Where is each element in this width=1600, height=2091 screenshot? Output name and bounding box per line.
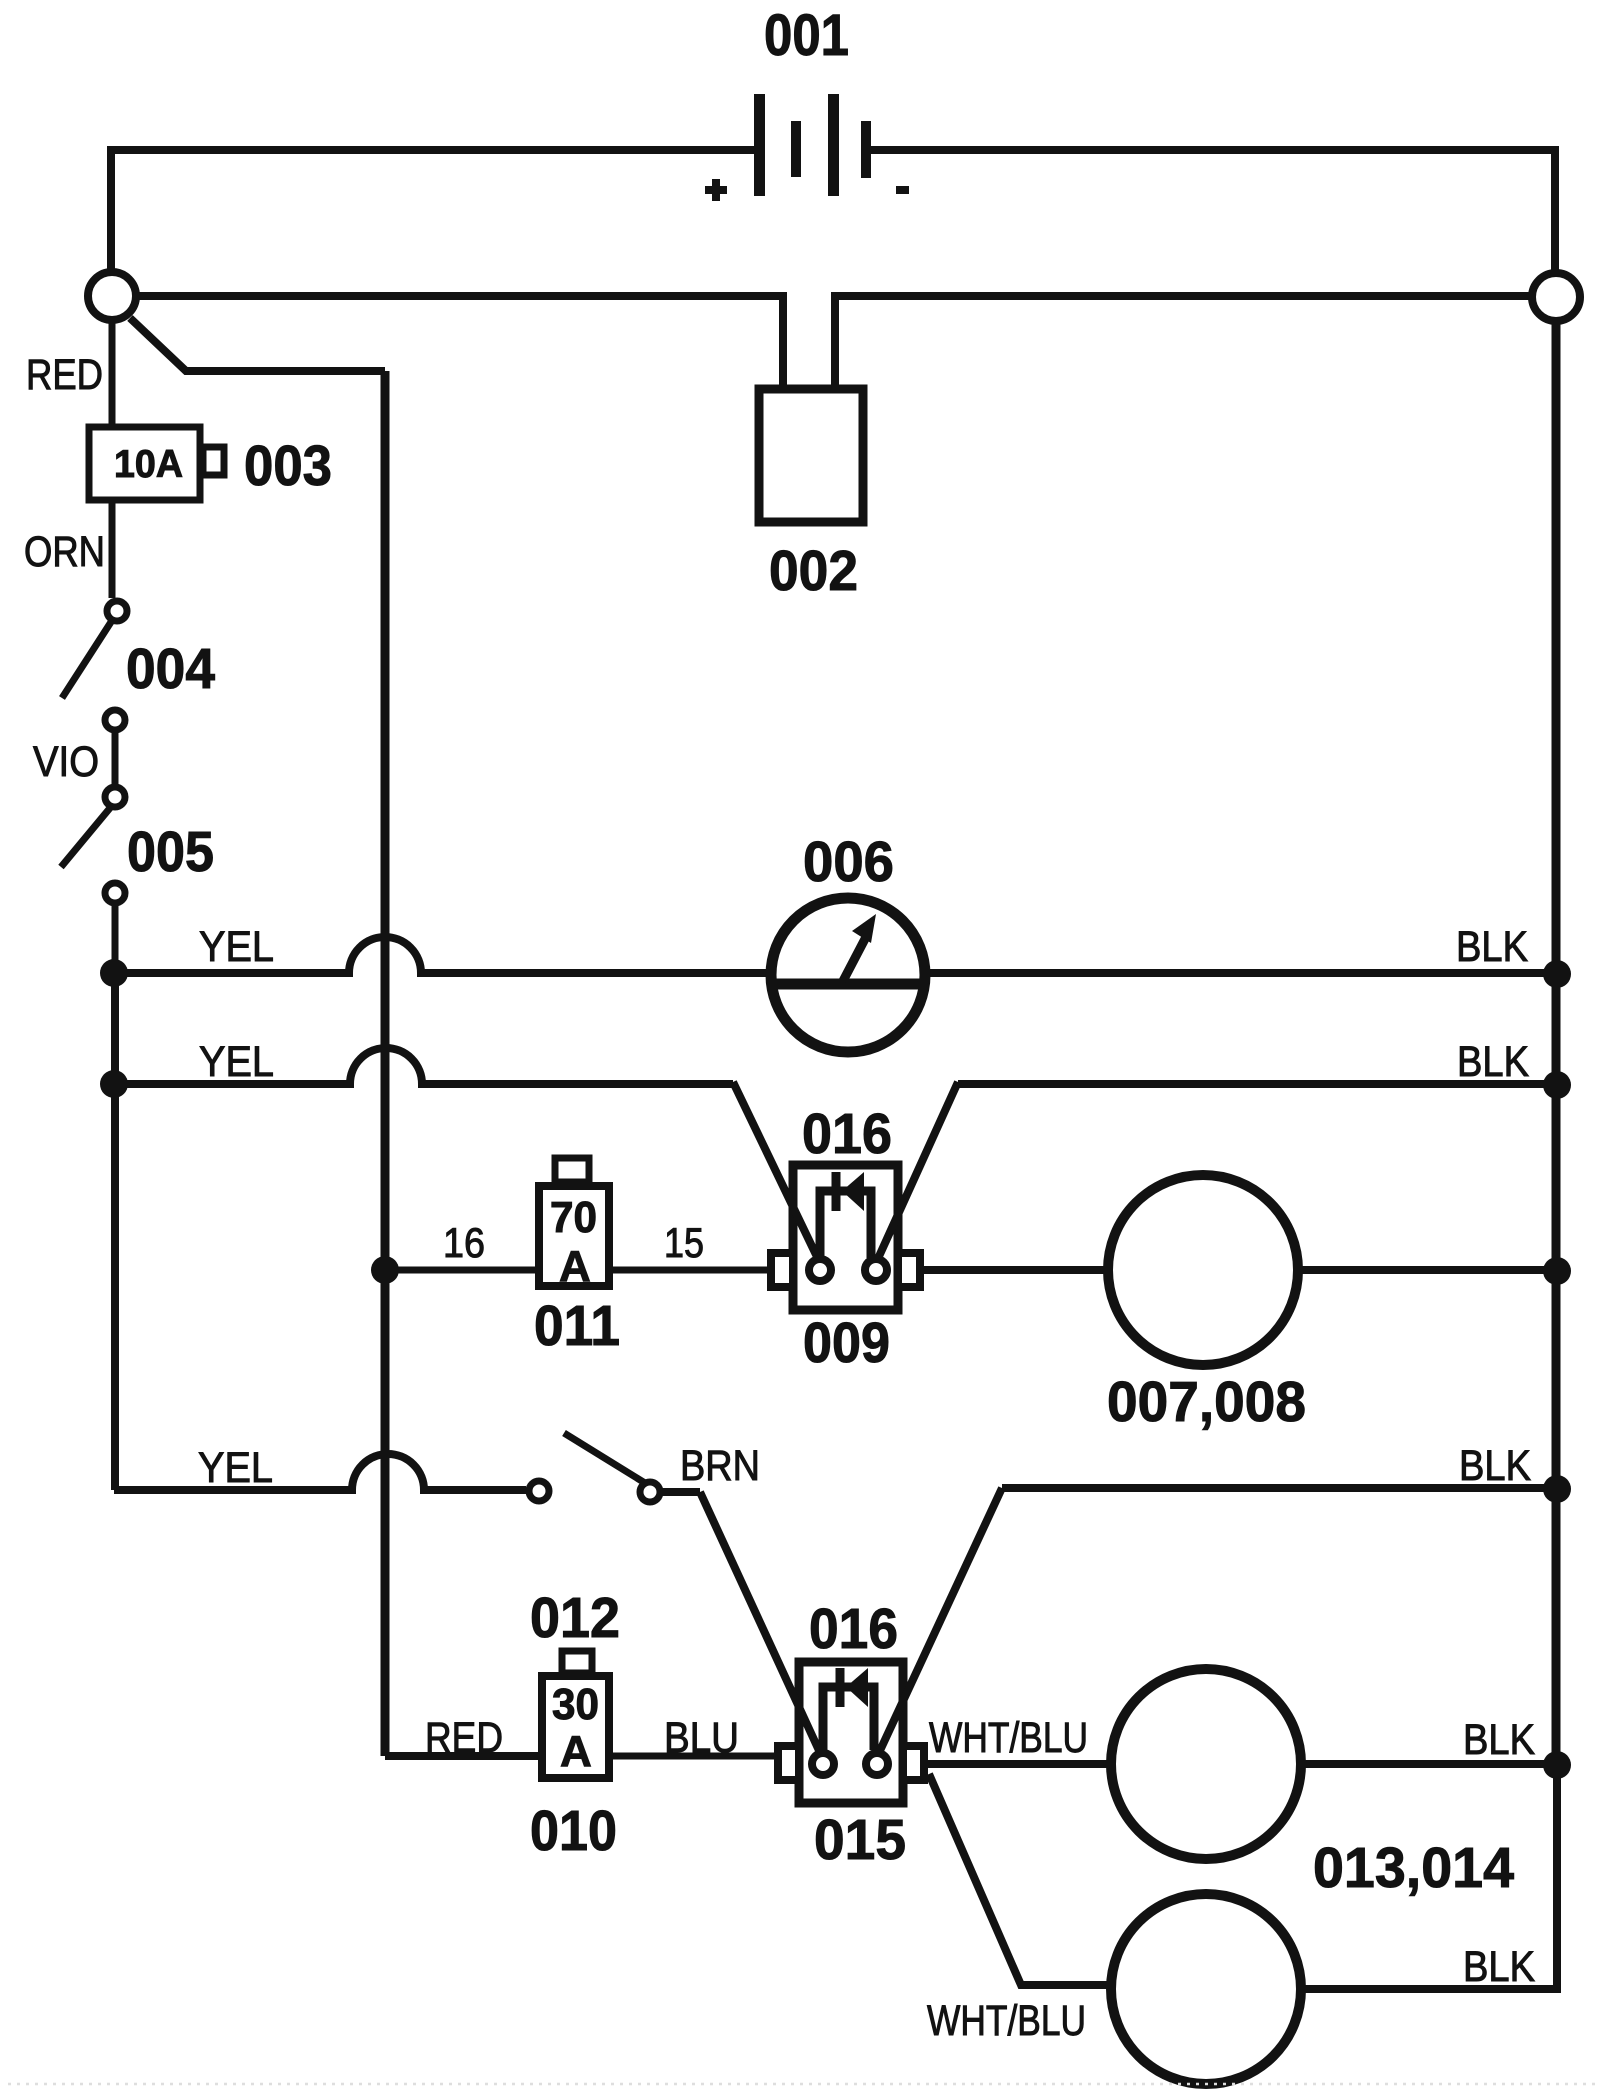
svg-text:RED: RED (26, 351, 103, 399)
wire inner vertical rail x=385 (381, 371, 390, 1756)
junction dot row 013 right (1543, 1751, 1571, 1779)
breaker 009 diode triangle (842, 1172, 864, 1211)
svg-text:ORN: ORN (24, 528, 105, 576)
wire bus1 BLK right (930, 969, 1557, 977)
svg-text:70: 70 (550, 1193, 597, 1242)
battery - sign (896, 186, 909, 194)
svg-text:015: 015 (814, 1808, 906, 1872)
wire motor 014 to right bus corner (1301, 1765, 1557, 1989)
svg-text:YEL: YEL (199, 923, 274, 971)
breaker 015 box (799, 1662, 903, 1803)
svg-text:WHT/BLU: WHT/BLU (929, 1714, 1088, 1762)
svg-text:012: 012 (530, 1586, 620, 1650)
svg-text:003: 003 (244, 434, 332, 498)
wire V right arm into 009 (876, 1082, 958, 1263)
wire right bus vertical (1552, 322, 1561, 1490)
breaker 015 diode triangle (846, 1668, 868, 1707)
svg-text:010: 010 (530, 1799, 617, 1863)
breaker 015 right pin (866, 1753, 888, 1775)
switch 004 blade (62, 622, 111, 698)
wire diagonal from left terminal to inner vertical (130, 318, 385, 371)
wire RED: terminal to fuse 003 (109, 320, 116, 425)
switch BRN blade (564, 1433, 645, 1483)
wire VIO link (112, 730, 119, 788)
fuse 011 top tab (555, 1158, 589, 1182)
switch 005 lower contact (105, 883, 125, 903)
svg-text:YEL: YEL (198, 1444, 273, 1492)
switch 004 contact (107, 601, 127, 621)
switch BRN right contact (640, 1482, 660, 1502)
wire 15 segment (609, 1267, 771, 1274)
svg-text:005: 005 (127, 820, 214, 884)
wire bus2 YEL left with hop (114, 1048, 733, 1084)
svg-text:WHT/BLU: WHT/BLU (927, 1997, 1086, 2045)
svg-text:007,008: 007,008 (1107, 1370, 1306, 1434)
wire V left arm into 009 (733, 1082, 820, 1263)
breaker 009 right pin (865, 1259, 887, 1281)
breaker 015 left tab (778, 1746, 799, 1780)
svg-text:A: A (559, 1242, 591, 1291)
motor 007,008 (1108, 1175, 1298, 1365)
fuse 003 box 10A (89, 427, 200, 500)
wire RED row 010 (385, 1752, 542, 1760)
junction dot row3 right (1543, 1475, 1571, 1503)
junction dot bus1 right (1543, 960, 1571, 988)
breaker 009 inner U (820, 1191, 871, 1258)
component 002 box (759, 389, 863, 522)
breaker 009 diode bar (832, 1172, 841, 1211)
breaker 009 left tab (771, 1253, 793, 1287)
gauge 006 body (771, 898, 925, 1052)
svg-text:BLK: BLK (1463, 1943, 1535, 1991)
wire motor to right bus (1298, 1266, 1557, 1274)
wire contact to bus1 (112, 903, 119, 973)
wire bus2 BLK right (958, 1080, 1557, 1088)
wire top-left vertical + top bus to battery + (111, 150, 754, 273)
fuse 010 box 30A (542, 1676, 609, 1778)
svg-text:15: 15 (664, 1219, 704, 1266)
switch 005 blade (61, 808, 110, 867)
motor 014 (1111, 1894, 1301, 2084)
breaker 009 box (793, 1165, 898, 1310)
wire drop right to 002 (831, 292, 839, 385)
breaker 015 right tab (903, 1746, 924, 1780)
svg-text:A: A (560, 1727, 592, 1776)
svg-text:VIO: VIO (33, 738, 99, 786)
breaker 009 right tab (898, 1253, 920, 1287)
breaker 015 inner U (823, 1687, 874, 1750)
svg-text:BLK: BLK (1457, 1038, 1529, 1086)
breaker 015 left pin (812, 1753, 834, 1775)
wire drop left to 002 (779, 292, 787, 385)
gauge 006 chord (768, 979, 928, 990)
battery + sign (705, 179, 727, 201)
svg-text:BLK: BLK (1456, 923, 1528, 971)
svg-text:BLU: BLU (664, 1714, 739, 1762)
motor 013 (1111, 1669, 1301, 1859)
wire 16 segment (385, 1267, 535, 1274)
svg-text:YEL: YEL (199, 1038, 274, 1086)
wire BLU segment (609, 1753, 778, 1760)
wire 009 to motor 007/008 (920, 1266, 1108, 1274)
switch BRN left contact (529, 1481, 549, 1501)
fuse 003 right tab (203, 447, 224, 475)
svg-text:016: 016 (802, 1102, 892, 1166)
gauge 006 needle (843, 937, 866, 981)
svg-text:16: 16 (443, 1219, 485, 1266)
wire row3 YEL with hop (114, 1454, 526, 1490)
wire bus1 YEL left with hop (114, 937, 766, 973)
svg-text:006: 006 (803, 830, 894, 894)
svg-text:BRN: BRN (680, 1442, 760, 1490)
wire left vertical bus1->bus2->row3 (111, 973, 119, 1490)
svg-text:004: 004 (126, 637, 215, 701)
wire battery - to top-right corner down to terminal (871, 150, 1555, 274)
svg-text:011: 011 (534, 1294, 620, 1358)
breaker 015 diode bar (836, 1668, 845, 1707)
svg-text:016: 016 (809, 1597, 898, 1661)
wire second bus right segment (835, 292, 1529, 300)
svg-text:BLK: BLK (1459, 1442, 1531, 1490)
fuse 011 box 70A (539, 1186, 609, 1286)
svg-text:30: 30 (552, 1680, 599, 1729)
fuse 010 top tab (562, 1651, 592, 1673)
wire ORN: fuse to switch 004 (109, 500, 116, 598)
breaker 009 left pin (809, 1259, 831, 1281)
wire WHT/BLU diagonal to motor 014 (929, 1774, 1111, 1985)
wire diagonal BLK3 to 015 right pin (877, 1488, 1002, 1757)
junction dot row009 right (1543, 1257, 1571, 1285)
wire second bus left segment (136, 292, 783, 300)
svg-text:001: 001 (764, 3, 849, 68)
svg-text:BLK: BLK (1463, 1716, 1535, 1764)
svg-text:10A: 10A (114, 443, 183, 486)
junction dot bus2 left (100, 1070, 128, 1098)
junction dot bus2 right (1543, 1071, 1571, 1099)
node terminal right (circle) (1532, 273, 1580, 321)
node terminal left (circle) (88, 272, 136, 320)
svg-text:002: 002 (769, 539, 858, 603)
svg-text:RED: RED (425, 1714, 503, 1762)
junction dot row009 on rail (371, 1256, 399, 1284)
switch 005 middle contact (105, 787, 125, 807)
svg-text:013,014: 013,014 (1313, 1836, 1514, 1900)
battery 001 (754, 94, 871, 196)
switch 005 upper contact (105, 710, 125, 730)
wire BRN stub (661, 1488, 700, 1496)
wire row BLK3 from right bus (1002, 1484, 1557, 1492)
wire BRN diagonal to 015 (700, 1492, 822, 1757)
scan artifact dotted line bottom (8, 2083, 1598, 2086)
wire WHT/BLU to motor 013 (924, 1760, 1111, 1768)
junction dot bus1 left (100, 959, 128, 987)
wire motor 013 to right bus (1301, 1760, 1557, 1768)
svg-text:009: 009 (803, 1311, 890, 1375)
gauge 006 needle arrowhead (852, 914, 876, 943)
